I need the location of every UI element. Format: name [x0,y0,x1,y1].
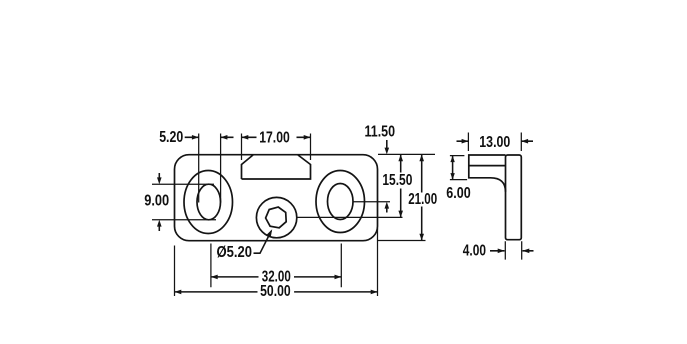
svg-text:6.00: 6.00 [446,185,470,202]
svg-text:50.00: 50.00 [260,283,291,300]
svg-text:4.00: 4.00 [463,242,486,259]
svg-text:Ø5.20: Ø5.20 [217,244,253,261]
svg-text:5.20: 5.20 [159,129,183,146]
svg-text:11.50: 11.50 [365,124,396,141]
svg-text:13.00: 13.00 [479,134,510,151]
svg-text:9.00: 9.00 [144,193,169,210]
svg-text:15.50: 15.50 [382,172,412,189]
svg-text:21.00: 21.00 [408,191,437,208]
svg-text:17.00: 17.00 [259,130,290,147]
